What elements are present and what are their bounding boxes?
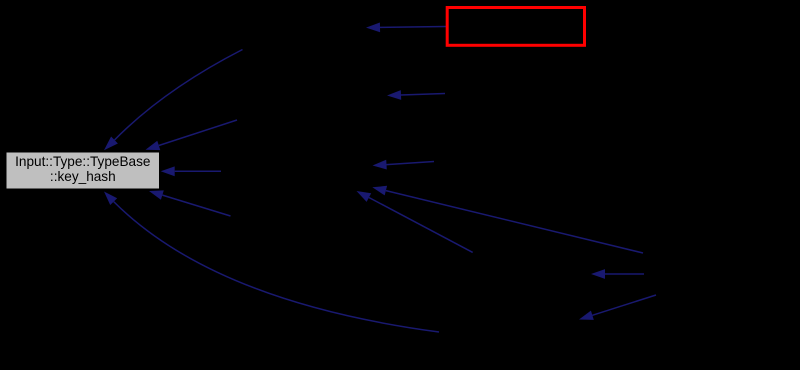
node Input::Type::TypeBase::key_hash (current node, grey) [6,152,160,189]
wire D: edge into key_hash bottom-right [149,190,231,216]
wire E4b: edge into hidden fan node, from far right [372,186,643,253]
svg-text:::key_hash: ::key_hash [50,169,116,184]
wire C: long curved edge from bottom into key_hash bottom-left [104,192,439,333]
wire E6: edge into hidden node bottom-right [579,295,656,320]
wire E5: edge into hidden node mid-right [591,269,644,279]
svg-text:Input::Type::TypeBase: Input::Type::TypeBase [15,154,150,169]
wire E1: edge from red node to hidden node X [366,23,446,33]
wire E4a: edge into hidden fan node, from lower-right [357,191,473,252]
wire B: edge into key_hash top-right [146,120,238,150]
wire E: edge into key_hash right edge [161,166,221,176]
wire E2: edge into hidden node (row 2) [387,90,445,100]
wire A: curved edge from node X into key_hash top-left [104,50,243,151]
wire E3: edge into hidden node (row 3) [373,160,435,170]
node: red highlighted (truncated) caller node [447,8,584,46]
